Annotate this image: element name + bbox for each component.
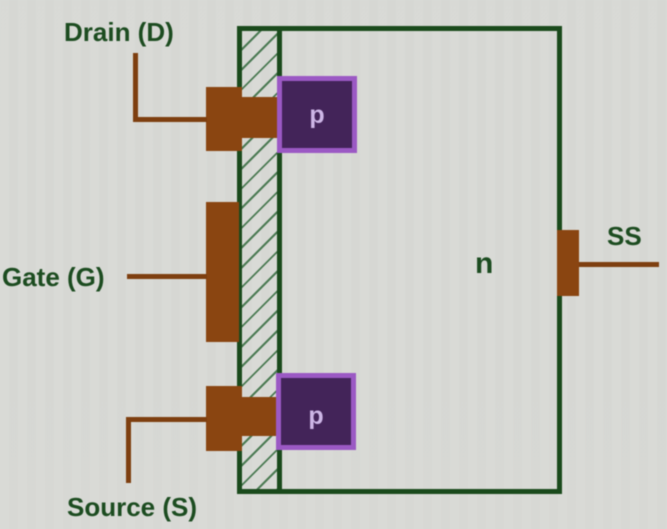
p region bottom: [276, 373, 356, 450]
label Drain (D): [64, 19, 174, 45]
label Source (S): [67, 494, 197, 520]
drain contact pad: [206, 87, 242, 151]
source contact pad: [206, 386, 242, 451]
label SS: [607, 223, 642, 249]
label n: [475, 251, 493, 277]
label Gate (G): [2, 264, 105, 290]
SS wire: [579, 262, 659, 267]
source connector through oxide: [242, 397, 278, 436]
substrate SS contact pad: [557, 230, 579, 296]
p label bottom: [276, 373, 356, 450]
p label top: [277, 76, 357, 153]
gate contact pad: [206, 202, 239, 342]
n-type substrate body U1: [237, 26, 562, 494]
drain connector through oxide: [242, 97, 278, 138]
gate oxide hatch strip: [242, 31, 277, 489]
drain wire horizontal segment: [133, 117, 207, 122]
drain wire vertical segment: [133, 53, 138, 122]
source wire vertical segment: [126, 417, 131, 483]
hatch strip right border line: [277, 31, 282, 489]
source wire horizontal segment: [126, 417, 207, 422]
gate wire: [127, 274, 207, 279]
p region top: [277, 76, 357, 153]
